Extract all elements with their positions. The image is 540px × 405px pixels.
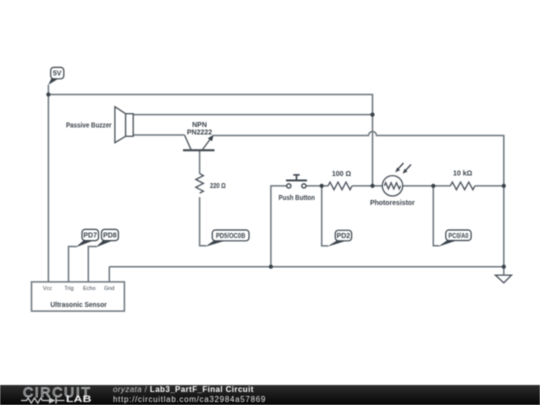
svg-text:PD2: PD2 (337, 233, 351, 240)
svg-text:Echo: Echo (83, 286, 96, 292)
svg-text:PD8: PD8 (103, 233, 117, 240)
svg-text:100 Ω: 100 Ω (332, 171, 352, 178)
svg-text:NPN: NPN (192, 122, 207, 129)
svg-text:PC0/A0: PC0/A0 (448, 233, 468, 240)
svg-text:Photoresistor: Photoresistor (370, 200, 415, 207)
svg-text:Gnd: Gnd (104, 286, 114, 292)
svg-text:Ultrasonic Sensor: Ultrasonic Sensor (50, 302, 107, 309)
svg-text:PN2222: PN2222 (187, 130, 212, 137)
svg-text:Passive Buzzer: Passive Buzzer (66, 123, 112, 130)
svg-text:Trig: Trig (64, 286, 73, 292)
svg-text:5V: 5V (53, 71, 62, 78)
svg-text:PD7: PD7 (83, 233, 97, 240)
svg-text:220 Ω: 220 Ω (210, 183, 226, 190)
svg-text:Vcc: Vcc (43, 286, 52, 292)
svg-text:PD5/OC0B: PD5/OC0B (216, 233, 246, 240)
svg-text:Push Button: Push Button (279, 195, 315, 202)
svg-text:10 kΩ: 10 kΩ (453, 171, 473, 178)
